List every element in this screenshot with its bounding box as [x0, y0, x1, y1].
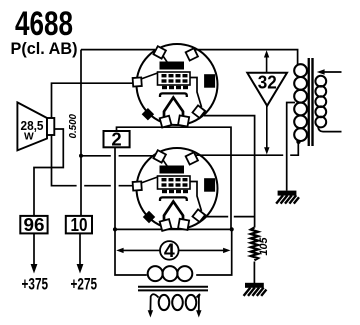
amplifier triangle 32: [247, 72, 287, 106]
V1 grid dashes: [162, 74, 189, 89]
svg-text:32: 32: [258, 72, 277, 93]
wire: V2 cathode stub (hop at x=231): [204, 216, 228, 218]
V1 pin (lower-left, black diamond): [142, 108, 154, 120]
V1 grid box: [158, 72, 191, 85]
V2 internal grid-to-pin diagonal: [141, 177, 158, 183]
V1 pin (right, black): [204, 74, 215, 88]
wire: secondary top lead with arrow: [324, 71, 342, 73]
svg-text:+375: +375: [22, 276, 49, 294]
wire: box 2 bottom lead down to filament bus: [115, 147, 147, 275]
wire: grid drive top horizontal to V1: [81, 49, 155, 51]
filament transformer primary winding: [148, 266, 193, 281]
ground 1 (under output transformer): [276, 191, 299, 204]
V1 screen connection wire: [190, 78, 202, 108]
meter box 10: [66, 214, 92, 235]
svg-text:+275: +275: [71, 276, 98, 294]
supply arrow +275: [77, 264, 84, 274]
V1 pin (top-left, anode): [153, 46, 165, 58]
arrow above triangle: [266, 57, 268, 74]
wire: filament secondary left lead with arrow: [150, 294, 158, 311]
V2 pin (left, g1): [133, 181, 142, 190]
svg-text:W: W: [24, 131, 34, 142]
V2 screen connection wire: [190, 182, 202, 212]
V2 pin (bottom-left filament): [160, 219, 172, 231]
wire: resistor 105 to ground 2: [253, 262, 255, 284]
wire: filament secondary right lead with arrow: [197, 294, 200, 311]
V2 pin (lower-left, black diamond): [143, 211, 155, 223]
V1 pin (bottom-left filament): [160, 116, 172, 128]
svg-text:4: 4: [164, 240, 175, 262]
ground 2 (under resistor 105): [244, 283, 267, 296]
wire: primary tap to ground 1: [287, 103, 295, 191]
wire: meter 10 to +275 arrow: [79, 233, 81, 265]
svg-text:10: 10: [71, 214, 88, 235]
V2 internal anode diagonal: [163, 160, 169, 168]
V1 pin (top-right): [186, 48, 198, 60]
V2 cathode: [160, 197, 187, 201]
output transformer secondary winding: [315, 76, 326, 128]
wire: secondary bottom lead: [318, 127, 342, 132]
output transformer primary winding: [294, 64, 307, 141]
V2 anode bar: [160, 166, 185, 174]
svg-text:4688: 4688: [15, 5, 73, 43]
junction: node at (115,229.5): [113, 227, 117, 231]
V2 pin (top-right, anode): [186, 152, 198, 164]
tube V2: [133, 148, 218, 231]
V2 pin (lower-right, screen): [192, 209, 205, 222]
svg-text:0.500: 0.500: [68, 114, 79, 139]
V1 pin (left, g1): [133, 77, 142, 86]
wire: +275 screen line from node to V2 left pin (hops at x=81 and x=115): [52, 168, 77, 186]
svg-text:2: 2: [111, 128, 121, 149]
filament transformer secondary winding: [159, 295, 197, 310]
V1 internal anode diagonal: [163, 56, 169, 64]
junction: node at (81,155.8): [79, 154, 83, 158]
wire: box 2 top lead to x=231 drop: [117, 127, 232, 229]
wire: meter 96 to +375 arrow: [33, 233, 35, 265]
wire: branch to V2 top-left pin (gap hop at x=115): [81, 155, 111, 157]
wire: right side down to filament transformer: [196, 229, 232, 275]
V2 grid box: [158, 176, 191, 189]
V2 grid dashes: [162, 178, 189, 193]
svg-text:96: 96: [24, 214, 45, 235]
loudspeaker 28,5 W: [17, 102, 54, 150]
V1 cathode: [160, 93, 187, 97]
wire: speaker top lead to V1 left pin: [52, 83, 136, 118]
junction: node at (231.7,229.4): [230, 227, 234, 231]
filament transformer core: [138, 286, 208, 288]
V2 pin (right, black): [204, 178, 215, 192]
resistor box 2 (grid): [104, 128, 130, 149]
dimension arrow left: [122, 249, 160, 251]
wire: cathode riser from V1 pin down to resistor 105: [204, 116, 255, 228]
V1 filament: [164, 98, 183, 121]
junction: primary bottom node: [296, 140, 300, 144]
wire: V2 anode bus to primary bottom (hop at ground riser): [196, 154, 284, 156]
svg-text:P(cl. AB): P(cl. AB): [11, 40, 78, 58]
wire: speaker bottom lead: [51, 135, 53, 168]
V1 pin (lower-right, screen): [192, 105, 205, 118]
V2 pin (top-left): [153, 150, 165, 162]
V2 pin (bottom-right filament): [178, 219, 189, 230]
wire: V1 anode line to output transformer primary top: [196, 50, 298, 65]
supply arrow +375: [31, 264, 38, 274]
V1 pin (bottom-right filament): [178, 115, 189, 126]
V1 anode bar: [160, 62, 185, 70]
meter box 96: [20, 214, 47, 235]
output transformer core: [308, 58, 310, 146]
dimension arrow right: [179, 249, 225, 251]
resistor 105 (cathode): [251, 228, 258, 261]
V2 filament: [164, 202, 183, 225]
V1 internal grid-to-pin diagonal: [141, 73, 158, 79]
arrow below triangle: [266, 106, 268, 148]
wire: vertical bus x=81 from top corner down to meter box 10: [80, 50, 82, 216]
wire: speaker right lead loop down: [34, 129, 63, 216]
tube V1: [133, 44, 218, 127]
wire: filament bus y=229.4: [115, 228, 232, 230]
svg-text:105: 105: [258, 237, 270, 256]
dimension circle 4: [160, 240, 179, 262]
